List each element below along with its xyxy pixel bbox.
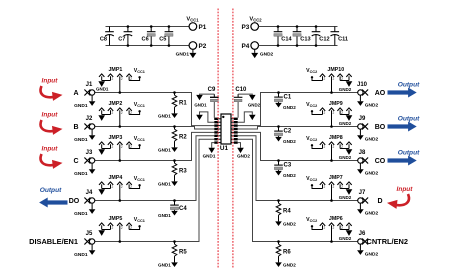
- ground GND2 (J7): [357, 203, 378, 216]
- svg-text:Input: Input: [42, 78, 59, 85]
- junction dots on top-left rails: [127, 25, 171, 47]
- svg-text:C12: C12: [319, 37, 329, 43]
- connector J2: [84, 116, 94, 130]
- wire J9 row to U1: [238, 127, 358, 130]
- wire J10 row to U1: [238, 93, 358, 126]
- svg-text:P1: P1: [199, 24, 207, 31]
- svg-text:GND2: GND2: [365, 251, 379, 257]
- svg-text:Input: Input: [397, 186, 414, 193]
- svg-text:P4: P4: [241, 43, 249, 50]
- ground GND1 (J2): [74, 129, 95, 143]
- resistor R3: [172, 161, 187, 182]
- svg-text:2: 2: [121, 185, 123, 189]
- svg-text:R1: R1: [179, 101, 187, 107]
- wire C9 to U1 pin 1: [213, 102, 215, 118]
- svg-text:C14: C14: [281, 37, 292, 43]
- svg-text:C4: C4: [179, 206, 187, 212]
- connector J3: [84, 150, 94, 164]
- resistor R4: [276, 201, 291, 222]
- svg-text:Output: Output: [398, 150, 420, 157]
- svg-text:C5: C5: [159, 37, 166, 43]
- U1 right pins 9-16: [231, 118, 238, 144]
- svg-text:2: 2: [121, 77, 123, 81]
- resistor R6: [276, 242, 291, 263]
- svg-text:2: 2: [333, 77, 335, 81]
- wire J8 row to U1: [238, 132, 358, 160]
- svg-text:DISABLE/EN1: DISABLE/EN1: [29, 237, 78, 246]
- ground GND1 (J4): [74, 203, 95, 217]
- svg-text:2: 2: [324, 77, 326, 81]
- wire J4 row to U1: [95, 136, 215, 201]
- ground GND1 (R3): [158, 181, 178, 186]
- ground GND2 (JMP6): [339, 230, 353, 241]
- svg-text:GND2: GND2: [365, 170, 379, 176]
- jumper JMP4: [99, 182, 141, 202]
- connector J10: [357, 82, 368, 96]
- svg-text:J3: J3: [86, 150, 93, 156]
- ground GND1 (R1): [158, 113, 178, 118]
- svg-text:CO: CO: [375, 158, 386, 165]
- junction dot: [173, 159, 176, 162]
- svg-text:J1: J1: [86, 82, 93, 88]
- svg-text:J6: J6: [359, 231, 366, 237]
- ground GND2 (C2): [275, 137, 296, 144]
- connector J5: [84, 231, 94, 245]
- connector J1: [84, 82, 94, 96]
- ground GND1 (JMP5): [98, 230, 105, 236]
- ground GND2 (P4): [251, 49, 273, 58]
- svg-text:2: 2: [112, 111, 114, 115]
- svg-text:GND2: GND2: [237, 154, 250, 159]
- ground GND2 (J6): [357, 244, 378, 257]
- capacitor C5: [159, 27, 173, 46]
- svg-text:VCC1: VCC1: [186, 17, 199, 23]
- connector P4: [241, 42, 258, 50]
- svg-text:GND2: GND2: [283, 222, 296, 227]
- output arrow (blue): [388, 88, 417, 98]
- svg-text:GND2: GND2: [283, 139, 296, 144]
- jumper JMP10: [311, 74, 352, 94]
- ground GND2 (U1 pin 9): [237, 143, 250, 159]
- svg-text:GND1: GND1: [96, 87, 109, 92]
- svg-text:J5: J5: [86, 231, 93, 237]
- svg-text:P2: P2: [199, 43, 207, 50]
- capacitor C3: [274, 161, 292, 171]
- svg-text:2: 2: [333, 111, 335, 115]
- svg-text:D: D: [377, 198, 382, 205]
- svg-text:2: 2: [324, 226, 326, 230]
- ground GND1 (J3): [74, 163, 95, 177]
- svg-text:C2: C2: [284, 129, 292, 135]
- ground GND2 (C10): [238, 94, 261, 107]
- svg-text:J10: J10: [357, 82, 368, 88]
- wire U1 pin 15 to GND2: [238, 112, 256, 122]
- svg-text:C13: C13: [300, 37, 310, 43]
- wire GND1 rail (top-left): [106, 45, 190, 47]
- junction dot: [173, 91, 176, 94]
- svg-text:GND1: GND1: [176, 51, 190, 57]
- capacitor C9: [208, 87, 219, 102]
- svg-text:GND2: GND2: [365, 210, 379, 216]
- svg-text:GND1: GND1: [74, 103, 88, 109]
- svg-text:GND1: GND1: [158, 148, 171, 153]
- svg-text:JMP7: JMP7: [329, 175, 343, 181]
- jumper JMP5: [99, 223, 141, 243]
- svg-text:C7: C7: [118, 37, 125, 43]
- junction dot: [277, 240, 280, 243]
- output arrow (blue): [388, 122, 417, 132]
- ground GND1 (U1 pin 8): [203, 143, 216, 159]
- ground GND1 (C9): [194, 94, 214, 107]
- capacitor C1: [274, 93, 292, 103]
- ground GND1 (JMP3): [98, 149, 105, 155]
- connector P2: [189, 42, 207, 50]
- svg-text:C1: C1: [284, 95, 292, 101]
- svg-text:GND2: GND2: [283, 173, 296, 178]
- svg-text:GND1: GND1: [74, 252, 88, 258]
- ground GND2 (JMP10): [339, 81, 353, 92]
- connector P3: [241, 23, 258, 31]
- svg-text:J2: J2: [86, 116, 93, 122]
- capacitor C8: [100, 27, 114, 46]
- op-amp U1 body (digital isolator): [220, 114, 231, 152]
- svg-text:JMP4: JMP4: [108, 175, 122, 181]
- svg-text:VCC2: VCC2: [249, 17, 262, 23]
- jumper JMP7: [311, 182, 352, 202]
- capacitor C2: [274, 127, 292, 137]
- ground GND2 (R4): [275, 221, 296, 226]
- ground GND2 (J9): [357, 129, 378, 142]
- svg-text:Input: Input: [42, 146, 59, 153]
- capacitor C10: [234, 87, 247, 102]
- ground GND1 (R2): [158, 147, 178, 152]
- ground GND1 (JMP2): [98, 115, 105, 121]
- svg-text:2: 2: [112, 226, 114, 230]
- output arrow DO (blue): [39, 198, 67, 208]
- wire VCC2 rail (top-right): [259, 26, 338, 28]
- connector P1: [189, 23, 207, 31]
- U1 left pins 1-8: [214, 118, 221, 144]
- svg-text:GND1: GND1: [74, 137, 88, 143]
- svg-text:J4: J4: [86, 190, 93, 196]
- svg-text:2: 2: [121, 145, 123, 149]
- wire J7 row to U1: [238, 136, 358, 201]
- svg-text:B: B: [73, 124, 78, 131]
- svg-text:JMP6: JMP6: [329, 216, 343, 222]
- ground GND2 (C3): [275, 171, 296, 178]
- ground GND2 (JMP8): [339, 149, 353, 160]
- svg-text:JMP2: JMP2: [108, 101, 122, 107]
- output arrow (blue): [388, 156, 417, 166]
- junction dot: [277, 125, 280, 128]
- jumper JMP6: [311, 223, 352, 243]
- capacitor C11: [331, 27, 349, 46]
- svg-text:CNTRL/EN2: CNTRL/EN2: [367, 237, 408, 246]
- input arrow (red): [41, 154, 63, 169]
- svg-text:GND2: GND2: [339, 195, 352, 200]
- svg-text:GND2: GND2: [365, 102, 379, 108]
- wire VCC1 rail (top-left): [106, 26, 190, 28]
- wire J6 row to U1: [238, 139, 358, 241]
- wire U1 pin 2 to GND1: [196, 112, 214, 122]
- svg-text:GND1: GND1: [158, 213, 171, 218]
- svg-text:U1: U1: [220, 145, 229, 152]
- svg-text:JMP9: JMP9: [329, 101, 343, 107]
- wire J1 row to U1: [95, 93, 215, 126]
- capacitor C6: [142, 27, 156, 46]
- junction dot: [173, 125, 176, 128]
- ground GND1 (C4): [158, 211, 178, 218]
- input arrow (red): [41, 86, 63, 101]
- svg-text:GND2: GND2: [283, 263, 296, 268]
- input arrow (red): [41, 120, 63, 135]
- svg-text:GND1: GND1: [194, 103, 207, 108]
- resistor R2: [172, 127, 187, 148]
- svg-text:GND2: GND2: [339, 155, 352, 160]
- ground GND1 (J5): [74, 244, 95, 258]
- input arrow D (red): [387, 194, 409, 209]
- svg-text:JMP1: JMP1: [108, 67, 122, 73]
- connector J9: [358, 116, 368, 130]
- connector J8: [358, 150, 368, 164]
- junction dot: [277, 91, 280, 94]
- svg-text:JMP10: JMP10: [327, 67, 344, 73]
- capacitor C4: [170, 201, 187, 213]
- svg-text:C9: C9: [208, 87, 216, 93]
- svg-text:R6: R6: [283, 250, 291, 256]
- svg-text:2: 2: [341, 226, 343, 230]
- connector J6: [358, 231, 368, 245]
- ground GND2 (JMP7): [339, 189, 353, 200]
- svg-text:P3: P3: [241, 24, 249, 31]
- svg-text:GND2: GND2: [339, 236, 352, 241]
- junction dot: [277, 159, 280, 162]
- ground GND2 (C1): [275, 103, 296, 110]
- svg-text:JMP8: JMP8: [329, 135, 343, 141]
- ground GND1 (J1): [74, 95, 95, 109]
- svg-text:J7: J7: [359, 190, 366, 196]
- wire J2 row to U1: [95, 127, 215, 130]
- svg-text:2: 2: [333, 145, 335, 149]
- svg-text:GND2: GND2: [365, 136, 379, 142]
- wire C10 to U1 pin 16: [237, 102, 239, 118]
- svg-text:GND2: GND2: [248, 103, 261, 108]
- svg-text:2: 2: [341, 77, 343, 81]
- svg-text:R2: R2: [179, 135, 187, 141]
- connector J4: [84, 190, 94, 204]
- svg-text:2: 2: [324, 111, 326, 115]
- connector J7: [358, 190, 368, 204]
- junction dot: [277, 199, 280, 202]
- svg-text:2: 2: [121, 111, 123, 115]
- svg-text:R3: R3: [179, 169, 187, 175]
- svg-text:2: 2: [121, 226, 123, 230]
- svg-text:A: A: [73, 90, 78, 97]
- svg-text:Output: Output: [40, 187, 62, 194]
- ground GND2 (JMP9): [339, 115, 353, 126]
- svg-text:2: 2: [112, 77, 114, 81]
- svg-text:2: 2: [324, 145, 326, 149]
- jumper JMP2: [99, 108, 141, 128]
- isolation barrier dashed line (right): [232, 9, 234, 269]
- jumper JMP8: [311, 142, 352, 162]
- svg-text:2: 2: [333, 185, 335, 189]
- svg-text:GND1: GND1: [74, 211, 88, 217]
- svg-text:GND1: GND1: [203, 154, 216, 159]
- svg-text:2: 2: [341, 111, 343, 115]
- ground GND1 (JMP4): [98, 189, 105, 195]
- ground GND1 (JMP1): [96, 81, 109, 91]
- svg-text:JMP5: JMP5: [108, 216, 122, 222]
- svg-text:C11: C11: [338, 37, 348, 43]
- isolation barrier dashed line (left): [217, 9, 219, 269]
- svg-text:J8: J8: [359, 150, 366, 156]
- svg-text:R4: R4: [283, 209, 291, 215]
- wire J3 row to U1: [95, 132, 215, 160]
- svg-text:GND2: GND2: [283, 105, 296, 110]
- resistor R5: [172, 242, 187, 263]
- jumper JMP3: [99, 142, 141, 162]
- jumper JMP9: [311, 108, 352, 128]
- svg-text:2: 2: [341, 185, 343, 189]
- svg-text:AO: AO: [375, 90, 386, 97]
- svg-text:JMP3: JMP3: [108, 135, 122, 141]
- ground GND1 (P2): [176, 49, 197, 58]
- wire GND2 rail (top-right): [259, 45, 338, 47]
- ground GND2 (J10): [357, 95, 378, 108]
- ground GND1 (R5): [158, 262, 178, 267]
- ground GND2 (J8): [357, 163, 378, 176]
- ground GND2 (R6): [275, 262, 296, 267]
- svg-text:J9: J9: [359, 116, 366, 122]
- svg-text:DO: DO: [69, 198, 80, 205]
- svg-text:Input: Input: [42, 112, 59, 119]
- svg-text:2: 2: [112, 185, 114, 189]
- svg-text:C8: C8: [100, 37, 107, 43]
- svg-text:GND2: GND2: [339, 87, 352, 92]
- svg-text:GND1: GND1: [158, 182, 171, 187]
- capacitor C12: [312, 27, 330, 46]
- svg-text:2: 2: [324, 185, 326, 189]
- svg-text:GND1: GND1: [74, 171, 88, 177]
- svg-text:Output: Output: [398, 82, 420, 89]
- svg-text:Output: Output: [398, 116, 420, 123]
- capacitor C14: [274, 27, 293, 46]
- svg-text:2: 2: [112, 145, 114, 149]
- svg-text:C: C: [73, 158, 78, 165]
- svg-text:GND2: GND2: [260, 51, 274, 57]
- svg-text:GND1: GND1: [158, 114, 171, 119]
- svg-text:C6: C6: [142, 37, 149, 43]
- junction dots on top-right rails: [277, 25, 318, 47]
- junction dot: [173, 199, 176, 202]
- capacitor C7: [118, 27, 132, 46]
- capacitor C13: [293, 27, 311, 46]
- wire J5 row to U1: [95, 139, 215, 241]
- svg-text:GND1: GND1: [158, 263, 171, 268]
- svg-text:2: 2: [341, 145, 343, 149]
- svg-text:C3: C3: [284, 163, 292, 169]
- svg-text:GND2: GND2: [339, 121, 352, 126]
- resistor R1: [172, 93, 187, 114]
- svg-text:R5: R5: [179, 250, 187, 256]
- svg-text:2: 2: [333, 226, 335, 230]
- junction dot: [173, 240, 176, 243]
- svg-text:BO: BO: [375, 124, 386, 131]
- jumper JMP1: [99, 74, 141, 94]
- svg-text:C10: C10: [235, 87, 247, 93]
